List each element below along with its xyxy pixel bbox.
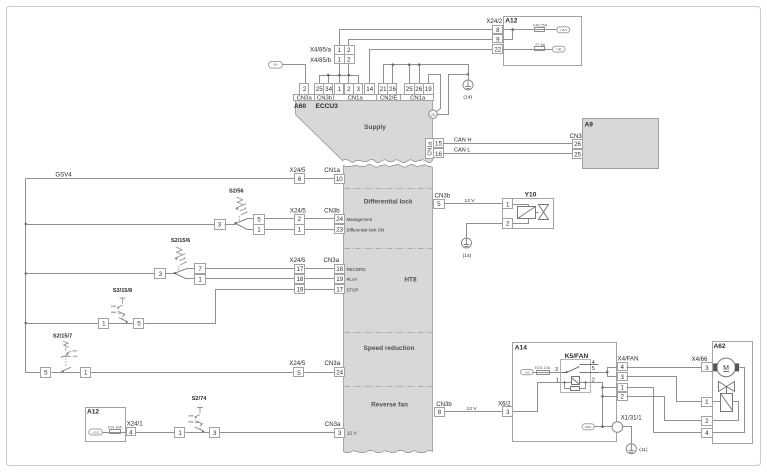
- svg-text:X24/2: X24/2: [486, 18, 503, 25]
- svg-text:3: 3: [338, 430, 342, 437]
- junction dots on X4/85/b bus: [327, 74, 330, 77]
- svg-text:GSV4: GSV4: [55, 172, 72, 179]
- svg-text:GND: GND: [585, 425, 591, 429]
- connector X24/5 pin 5: [294, 368, 304, 377]
- svg-text:M: M: [723, 365, 729, 372]
- svg-text:X4/85/a: X4/85/a: [310, 47, 332, 54]
- fuse F211 10A: [537, 371, 550, 375]
- wire X4/FAN pin3 to X4/66 pin1: [627, 377, 702, 402]
- svg-text:3: 3: [159, 271, 163, 278]
- wire S+ to ECCU3 CN3a pin 2: [283, 65, 306, 84]
- ECCU3 CN1a pins 25 26 19: [405, 84, 415, 95]
- switch S3/15/8 contact: [119, 318, 128, 322]
- switch S2/74 contact: [195, 427, 204, 431]
- svg-text:3: 3: [705, 365, 709, 372]
- wire CN1a pin19 to connection point 3: [429, 75, 441, 112]
- wire S2/56 box3 to fork: [225, 224, 236, 226]
- connector X4/FAN pin 3: [618, 373, 628, 381]
- svg-text:Differential lock ON: Differential lock ON: [347, 228, 385, 233]
- wire relay terminal 2 down to ground net: [591, 383, 603, 427]
- svg-text:CN3: CN3: [570, 133, 583, 140]
- switch S2/74 actuator: [189, 408, 204, 431]
- svg-text:25: 25: [406, 86, 413, 93]
- svg-text:5: 5: [44, 369, 48, 376]
- svg-text:15: 15: [435, 141, 442, 148]
- terminal +30 in A14: [521, 370, 533, 375]
- svg-text:CAN H: CAN H: [454, 137, 471, 143]
- svg-text:1: 1: [556, 377, 559, 383]
- svg-text:2: 2: [298, 216, 302, 223]
- switch S2/74 terminal box 1: [175, 428, 185, 438]
- Y10 internal wiring: [513, 205, 539, 224]
- control unit A12 (top) box: [504, 17, 582, 66]
- connector X24/5 pin 1: [295, 225, 305, 235]
- svg-text:3: 3: [218, 221, 222, 228]
- ECCU3 CN1a vertical connector label: [426, 139, 434, 159]
- wire X24/1 pin4 to S2/74: [136, 432, 175, 434]
- svg-text:CN1a: CN1a: [428, 142, 434, 156]
- terminal GND in A14: [582, 424, 594, 430]
- ECCU3 CN3b pin 24 Management: [335, 215, 345, 224]
- relay parallel resistor loop: [565, 383, 586, 389]
- ECCU3 CN1a pin 16: [434, 149, 444, 158]
- connector X24/5 pin 17: [295, 265, 305, 274]
- A9 CN3 pin 25: [573, 150, 583, 159]
- svg-text:X24/5: X24/5: [290, 257, 307, 264]
- switch S2/15/6 fork contact: [175, 269, 187, 279]
- wire ground bus CN2/E 21 26 and CN1a 25 26 to ground 14: [384, 65, 469, 84]
- svg-text:4: 4: [621, 364, 625, 371]
- wire CAN H: [444, 143, 573, 145]
- svg-text:CN3a: CN3a: [324, 257, 340, 264]
- connector X4/66 pin 4: [702, 429, 713, 438]
- Y10 coil: [518, 207, 536, 219]
- wire through S2/74 contact: [186, 432, 210, 434]
- svg-text:9: 9: [496, 36, 500, 43]
- ECCU3 CN3b pin 5: [434, 200, 445, 209]
- svg-text:2: 2: [347, 47, 351, 54]
- wire bus X4/85/b to CN3b pins 25 34 and CN1a pins 1 2 3: [320, 64, 359, 84]
- terminal S+ (supply marker): [269, 62, 283, 69]
- svg-text:X4/85/b: X4/85/b: [310, 57, 332, 64]
- wire S2/56 to X24/5 pins 2 1: [265, 219, 295, 230]
- svg-text:23: 23: [336, 227, 343, 234]
- svg-text:A12: A12: [87, 409, 99, 416]
- ECCU3 CN3b pin 23 Differential lock ON: [335, 225, 345, 234]
- svg-text:X4/FAN: X4/FAN: [618, 355, 639, 362]
- ECCU3 CN1a pin 10: [335, 175, 345, 184]
- wire S3/15/8 to X24/5 pin 19: [145, 290, 295, 324]
- svg-text:34: 34: [325, 86, 332, 93]
- svg-text:18: 18: [296, 276, 303, 283]
- terminal +30: [552, 46, 565, 52]
- connection point circle (3): [429, 110, 437, 118]
- ECCU3 CN3a pin 17 STOP: [335, 285, 345, 294]
- relay contact: [561, 365, 599, 373]
- solenoid valve Y10 body: [503, 199, 554, 229]
- svg-text:18: 18: [336, 266, 343, 273]
- svg-text:8: 8: [438, 409, 442, 416]
- svg-text:S2/15/6: S2/15/6: [171, 238, 190, 244]
- splice X1/31/1: [612, 422, 623, 433]
- svg-text:CN3a: CN3a: [325, 421, 341, 428]
- svg-text:X4/66: X4/66: [692, 356, 709, 363]
- switch S3/15/8 terminal box 5: [134, 319, 144, 329]
- svg-text:F7 5A: F7 5A: [535, 43, 545, 47]
- svg-text:2: 2: [347, 56, 351, 63]
- svg-text:5: 5: [257, 216, 261, 223]
- relay coil on wire 1-2: [561, 382, 591, 384]
- fan unit A62 box: [713, 342, 753, 444]
- ECCU3 CN3a pin 19 PLAY: [335, 275, 345, 284]
- connector X4/FAN pin 1: [618, 384, 628, 392]
- svg-text:26: 26: [389, 86, 396, 93]
- fuse F48 25A: [535, 28, 545, 32]
- wire X4/85/a pin2 to A12 X24/2 pin 9: [349, 40, 493, 46]
- wire GND to X1/31/1: [595, 426, 613, 428]
- svg-text:(11): (11): [639, 447, 648, 453]
- wire CN3b pin8 12V to X6/2: [445, 411, 503, 413]
- A62 solenoid coil: [721, 394, 733, 412]
- svg-text:5: 5: [297, 370, 301, 377]
- switch S2/15/7 terminal box 5: [41, 368, 51, 378]
- svg-text:1: 1: [178, 430, 182, 437]
- wire X24/2 pin8 to +15 terminal: [503, 29, 557, 31]
- svg-text:A9: A9: [585, 122, 594, 129]
- svg-text:CN3b: CN3b: [324, 207, 340, 214]
- svg-text:1: 1: [338, 86, 342, 93]
- connector X24/5 pin 6: [295, 174, 305, 184]
- wire S2/15/6 box3 to fork: [166, 273, 175, 275]
- wire motor to X4/66 pin 4 via right side: [713, 368, 745, 433]
- A9 CN3 pin 26: [573, 140, 583, 149]
- svg-text:A14: A14: [515, 345, 527, 352]
- svg-text:8: 8: [496, 27, 500, 34]
- svg-text:4: 4: [129, 429, 133, 436]
- wire S2/15/6 to X24/5 pins 17 18: [206, 269, 295, 279]
- svg-text:CN3a: CN3a: [325, 360, 341, 367]
- wire CN3b pin5 12V to Y10 pin 1: [445, 203, 503, 205]
- control unit A12 (bottom) box: [86, 408, 126, 442]
- svg-text:14: 14: [366, 86, 373, 93]
- connector X24/5 pin 19: [295, 285, 305, 294]
- switch S2/15/6 terminal box 3: [155, 269, 166, 279]
- svg-text:Differential lock: Differential lock: [364, 199, 413, 206]
- svg-text:X24/1: X24/1: [127, 421, 144, 428]
- svg-text:5: 5: [437, 201, 441, 208]
- fuse F24 10A: [110, 430, 121, 434]
- ECCU3 A60 body lower column: [344, 165, 433, 453]
- wire X24/2 pin9 join to pin8 net: [503, 30, 513, 40]
- relay K5/FAN body: [561, 360, 591, 393]
- wire ground net to X4/FAN pin 2: [603, 396, 618, 398]
- svg-text:5: 5: [592, 366, 595, 372]
- svg-text:K5/FAN: K5/FAN: [565, 353, 589, 360]
- wire bus corner to S2/15/7 box 5: [26, 372, 41, 374]
- connector X24/5 pin 18: [295, 275, 305, 284]
- svg-text:3: 3: [621, 374, 625, 381]
- svg-text:X24/5: X24/5: [289, 360, 306, 367]
- svg-text:17: 17: [336, 286, 343, 293]
- ECCU3 connector name boxes CN3a CN3b CN1a CN2/E CN1a: [294, 95, 316, 101]
- svg-text:3: 3: [506, 409, 510, 416]
- connector X4/85/b pins 1 2: [335, 55, 345, 64]
- svg-text:25: 25: [574, 151, 581, 158]
- svg-text:(14): (14): [463, 95, 472, 101]
- svg-text:1: 1: [506, 201, 510, 208]
- wire S2/15/7 to X24/5 pin 5: [91, 372, 294, 374]
- switch S3/15/8 terminal box 1: [99, 319, 109, 329]
- svg-text:7: 7: [198, 266, 202, 273]
- connector X6/2 pin 3: [503, 407, 513, 417]
- svg-text:19: 19: [425, 86, 432, 93]
- svg-text:Supply: Supply: [364, 124, 386, 131]
- svg-text:16: 16: [435, 151, 442, 158]
- connector X24/2 pin 9: [493, 35, 503, 43]
- svg-text:PLAY: PLAY: [347, 277, 358, 282]
- terminal +15 bottom: [89, 429, 103, 435]
- wire connection point 3 to ground junction: [437, 75, 469, 115]
- svg-text:+30: +30: [556, 47, 562, 51]
- svg-text:6: 6: [298, 176, 302, 183]
- wire X24/2 pin22 to +30 terminal: [503, 49, 553, 51]
- switch S2/56 terminal box 3: [215, 220, 226, 230]
- svg-text:Reverse fan: Reverse fan: [371, 402, 408, 409]
- svg-text:Y10: Y10: [525, 192, 537, 199]
- ECCU3 A60 body upper part - Supply section: [296, 101, 433, 163]
- switch S2/56 terminal box 5: [254, 215, 265, 225]
- wire +30 through fuse F211 to relay terminal 3: [533, 372, 561, 374]
- connector X4/66 pin 2: [702, 417, 713, 426]
- svg-text:22: 22: [494, 47, 501, 54]
- wire X4/FAN pin2 to X4/66 pin2: [627, 397, 702, 421]
- ECCU3 CN3b pin 8: [435, 408, 445, 417]
- svg-text:CN1a: CN1a: [324, 167, 340, 174]
- svg-text:26: 26: [415, 86, 422, 93]
- svg-text:26: 26: [574, 141, 581, 148]
- svg-text:1: 1: [257, 227, 261, 234]
- svg-text:24: 24: [336, 370, 343, 377]
- svg-text:X24/5: X24/5: [290, 207, 307, 214]
- svg-text:25: 25: [316, 86, 323, 93]
- svg-text:A60: A60: [294, 103, 306, 110]
- Y10 valve symbol: [539, 205, 549, 220]
- Y10 pin 1: [503, 199, 513, 209]
- svg-text:CN3b: CN3b: [436, 401, 452, 408]
- svg-text:2: 2: [347, 86, 351, 93]
- switch S2/15/7 actuator: [61, 341, 78, 367]
- wire CAN L: [444, 153, 573, 155]
- junction dots ground bus: [392, 63, 395, 66]
- connector X4/FAN pin 2: [618, 393, 628, 401]
- svg-text:1: 1: [298, 227, 302, 234]
- wire +15 through fuse F24 to X24/1 pin 4: [103, 432, 127, 434]
- wire ground net to X4/FAN pin 1: [603, 387, 618, 389]
- control unit A14 box: [513, 343, 617, 442]
- ECCU3 CN3b pins 25 34: [315, 84, 324, 95]
- fuse F7 5A: [535, 47, 545, 51]
- svg-text:X1/31/1: X1/31/1: [621, 415, 643, 422]
- svg-text:+15/1: +15/1: [92, 430, 100, 434]
- ECCU3 CN1a pin 15: [434, 139, 444, 148]
- svg-text:1: 1: [338, 47, 342, 54]
- ground symbol (14) at Y10: [462, 238, 472, 248]
- wire bus to S3/15/8: [26, 323, 99, 325]
- wire S2/74 to CN3a pin 3: [220, 432, 335, 434]
- connector X24/1 pin 4: [127, 428, 136, 436]
- svg-text:1: 1: [198, 276, 202, 283]
- connector X24/2 pin 8: [493, 26, 503, 34]
- wire through S2/15/7 contact: [52, 372, 81, 374]
- svg-text:19: 19: [336, 276, 343, 283]
- switch S2/15/6 terminal box 1: [195, 275, 206, 285]
- svg-text:10: 10: [336, 176, 343, 183]
- fan motor M: [713, 358, 739, 377]
- connector X4/FAN pin 4: [618, 363, 628, 371]
- svg-text:+30: +30: [524, 370, 530, 374]
- svg-text:CN3b: CN3b: [435, 193, 451, 200]
- svg-text:S2/56: S2/56: [229, 189, 244, 195]
- connector X4/66 pin 3: [702, 363, 713, 372]
- svg-text:2: 2: [506, 221, 510, 228]
- svg-text:24: 24: [336, 216, 343, 223]
- svg-text:1: 1: [84, 369, 88, 376]
- connector X24/5 pin 2: [295, 215, 305, 225]
- svg-text:1: 1: [338, 56, 342, 63]
- svg-text:(14): (14): [463, 253, 472, 259]
- svg-text:12 V: 12 V: [467, 406, 478, 412]
- wire X4/85/a pin1 to A12 X24/2 pin 8: [340, 30, 493, 46]
- svg-text:ECCU3: ECCU3: [316, 103, 339, 110]
- wire X24/5 to CN3b pins 24 23: [305, 219, 335, 230]
- svg-text:4: 4: [705, 430, 709, 437]
- svg-text:(3): (3): [431, 112, 437, 117]
- wire left supply bus GSV4: [25, 179, 27, 373]
- ECCU3 CN3a pin 24 speed reduction: [335, 368, 345, 377]
- ECCU3 CN2/E pins 21 26: [379, 84, 388, 95]
- svg-text:Speed reduction: Speed reduction: [364, 345, 415, 352]
- svg-text:21: 21: [380, 86, 387, 93]
- svg-text:A12: A12: [505, 17, 517, 24]
- svg-text:2: 2: [621, 394, 625, 401]
- svg-text:+15/1: +15/1: [559, 28, 567, 32]
- svg-text:3: 3: [213, 430, 217, 437]
- svg-text:19: 19: [296, 286, 303, 293]
- ECCU3 CN3a pin 3 12V: [335, 429, 345, 438]
- connector X24/2 pin 22: [493, 45, 503, 54]
- svg-text:3: 3: [555, 367, 558, 373]
- ground symbol (11): [626, 444, 636, 454]
- ECCU3 CN1a pins 1 2 3 14: [335, 84, 344, 95]
- svg-text:A62: A62: [714, 343, 726, 350]
- svg-text:5: 5: [137, 320, 141, 327]
- switch S2/56 terminal box 1: [254, 225, 265, 235]
- svg-text:3: 3: [356, 86, 360, 93]
- control unit A9 box: [583, 119, 659, 169]
- svg-text:12 V: 12 V: [465, 198, 476, 204]
- wire X4/FAN pin1 to X4/66 pin4: [627, 388, 702, 433]
- svg-text:S2/15/7: S2/15/7: [53, 333, 72, 339]
- connector X4/85/a pins 1 2: [335, 46, 345, 55]
- connector X4/66 pin 1: [702, 398, 713, 407]
- wire CN1a pin14 to A12 X24/2 pin 22: [370, 50, 493, 84]
- svg-text:S3/15/8: S3/15/8: [113, 288, 132, 294]
- switch S2/15/7 contact: [62, 367, 71, 371]
- svg-text:F48 25A: F48 25A: [533, 23, 547, 27]
- ECCU3 CN3a pin 18 RECORD: [335, 265, 345, 274]
- switch S2/74 terminal box 3: [210, 428, 220, 438]
- svg-text:CAN L: CAN L: [454, 148, 470, 154]
- switch S2/15/7 terminal box 1: [81, 368, 91, 378]
- svg-text:Management: Management: [347, 217, 373, 222]
- ground symbol (14) top: [463, 80, 473, 90]
- svg-text:F211 10A: F211 10A: [535, 366, 551, 370]
- svg-text:S2/74: S2/74: [192, 396, 208, 402]
- section divider dashes: [345, 188, 433, 190]
- wire X4/66 pin 3 to motor: [713, 367, 714, 369]
- svg-text:HT8: HT8: [404, 277, 417, 284]
- svg-text:STOP: STOP: [347, 287, 359, 292]
- ECCU3 CN3a pin 2: [300, 84, 309, 95]
- wire X24/5 pin5 to CN3a pin 24: [305, 372, 335, 374]
- terminal +15/1: [557, 27, 570, 33]
- switch S2/56 fork contact: [236, 219, 248, 229]
- svg-text:12 V: 12 V: [347, 431, 358, 437]
- svg-text:S+: S+: [273, 63, 277, 67]
- wire coil to X4/66 pin 2: [713, 402, 739, 421]
- wire X1/31/1 to ground 11: [623, 427, 632, 444]
- svg-text:X24/5: X24/5: [290, 167, 307, 174]
- svg-text:1: 1: [705, 399, 709, 406]
- wire Y10 pin 2 to ground 14: [467, 224, 503, 239]
- Y10 pin 2: [503, 219, 513, 229]
- switch S3/15/8 actuator: [111, 298, 126, 321]
- svg-text:RECORD: RECORD: [347, 267, 366, 272]
- wire X4/FAN pin4 to X4/66 pin3: [627, 367, 702, 369]
- switch S2/15/6 terminal box 7: [195, 264, 206, 274]
- wire bus to S2/15/6: [26, 273, 155, 275]
- svg-text:2: 2: [705, 418, 709, 425]
- switch S2/56 actuator: [235, 197, 247, 222]
- wire X6/2 pin3 to relay terminal 1: [513, 383, 561, 412]
- svg-text:17: 17: [296, 266, 303, 273]
- wire bus to S2/56: [26, 224, 215, 226]
- wire through S3/15/8 contact: [109, 323, 134, 325]
- wire relay terminal 5 to X4/FAN pins 4 and 3: [599, 368, 618, 377]
- svg-text:F24 10A: F24 10A: [108, 425, 122, 429]
- svg-text:2: 2: [303, 86, 307, 93]
- wire GSV4 row: [26, 178, 335, 180]
- junction dots left bus: [25, 223, 28, 226]
- svg-text:1: 1: [102, 320, 106, 327]
- switch S2/15/6 actuator: [174, 247, 186, 272]
- A62 valve symbol: [719, 382, 735, 394]
- wire X4/66 pin 1 to coil: [713, 401, 721, 403]
- svg-text:1: 1: [621, 385, 625, 392]
- wires X24/5 to CN3a pins 18 19 17: [305, 269, 335, 290]
